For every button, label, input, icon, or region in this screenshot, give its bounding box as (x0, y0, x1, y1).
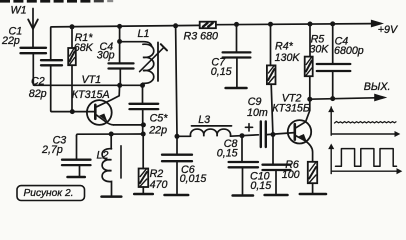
capacitor C6 (162, 136, 192, 193)
svg-text:Рисунок 2.: Рисунок 2. (24, 188, 74, 199)
capacitor C3 (62, 136, 91, 176)
ground C7 (226, 87, 247, 90)
svg-text:КТ315А: КТ315А (72, 89, 110, 101)
svg-text:100: 100 (282, 169, 300, 181)
resistor R5 (305, 24, 313, 99)
transistor VT1 (87, 85, 120, 125)
wire detector line to L3 (177, 135, 191, 137)
capacitor C2 (41, 60, 62, 65)
wire C9 to VT2 base (267, 133, 295, 135)
antenna W1 (28, 9, 38, 48)
wire emitter VT1 to node (114, 124, 144, 126)
svg-text:C2: C2 (31, 75, 45, 87)
svg-text:0,15: 0,15 (250, 180, 271, 192)
page edge dashed strip (0, 0, 113, 3)
svg-text:6800p: 6800p (334, 45, 364, 57)
wire tank line (node collector VT1) (34, 84, 143, 86)
+9V arrow (371, 20, 382, 26)
figure caption box (17, 186, 85, 201)
svg-text:+9V: +9V (378, 24, 398, 36)
ground C3 (68, 176, 85, 179)
inductor L2 (102, 134, 121, 196)
oscillogram 1 noise trace (335, 122, 397, 124)
wire C1 bottom to tank line (33, 53, 34, 85)
svg-text:W1: W1 (11, 5, 27, 17)
wire C2 bottom to base line (51, 65, 52, 111)
svg-text:R4*: R4* (275, 40, 294, 52)
capacitor C4b (317, 24, 351, 99)
svg-text:82p: 82p (29, 88, 47, 100)
svg-text:R3 680: R3 680 (184, 31, 219, 43)
capacitor C9 (261, 122, 266, 148)
svg-text:L1: L1 (138, 28, 150, 40)
svg-text:68K: 68K (74, 42, 94, 54)
svg-text:0,15: 0,15 (211, 66, 232, 78)
oscillogram 2 square wave (336, 149, 397, 167)
capacitor C7 (223, 24, 251, 86)
wire collector VT2 (306, 99, 310, 122)
plus sign C9 (245, 124, 252, 131)
svg-text:22p: 22p (148, 125, 167, 137)
svg-text:470: 470 (150, 179, 168, 191)
capacitor C1 (21, 48, 47, 53)
svg-text:VT1: VT1 (82, 74, 102, 86)
resistor R4 (267, 24, 276, 134)
svg-text:L2: L2 (97, 150, 109, 162)
wire L3 to C9 (231, 135, 259, 136)
wire rail tap to detector node (176, 26, 177, 136)
svg-text:130K: 130K (275, 52, 301, 64)
svg-text:ВЫХ.: ВЫХ. (364, 81, 391, 93)
output arrow (375, 94, 386, 100)
resistor R2 (139, 134, 149, 193)
svg-text:30K: 30K (309, 43, 329, 55)
wire emitter node line (C3 L2) (77, 134, 144, 136)
svg-text:30p: 30p (97, 49, 115, 61)
resistor R1 (68, 27, 76, 112)
svg-text:L3: L3 (198, 114, 210, 126)
ground C6 (165, 194, 189, 197)
svg-text:0,015: 0,015 (180, 173, 207, 185)
wire +9V left rail segment (51, 25, 200, 60)
oscillogram 2 axes (329, 145, 401, 174)
ground C8 (233, 194, 253, 197)
svg-text:0,15: 0,15 (217, 147, 238, 159)
wire base line VT1 (52, 111, 95, 113)
resistor R6 (308, 162, 317, 193)
oscillogram 1 axes (329, 107, 399, 136)
capacitor C8 (229, 136, 258, 194)
ground R6 (300, 193, 326, 196)
svg-text:10m: 10m (247, 107, 268, 119)
output line (310, 98, 375, 99)
transistor VT2 (288, 120, 313, 162)
inductor L3 (190, 126, 231, 136)
resistor R3 (200, 22, 372, 29)
capacitor C5 (130, 85, 159, 134)
inductor L1 (120, 42, 167, 86)
svg-text:22p: 22p (1, 35, 20, 47)
ground L2 (102, 195, 122, 198)
ground R2 (134, 193, 153, 196)
svg-text:2,7p: 2,7p (41, 144, 63, 156)
capacitor C10 (263, 135, 291, 194)
capacitor C4 (109, 26, 134, 85)
svg-text:КТ315Б: КТ315Б (272, 102, 310, 114)
svg-text:C5*: C5* (150, 112, 169, 124)
ground C10 (265, 194, 288, 197)
